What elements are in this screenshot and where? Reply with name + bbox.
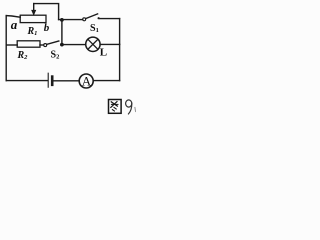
wire: left rail to R2 bbox=[6, 44, 17, 46]
wire: terminal a to left rail bbox=[6, 16, 20, 18]
svg-text:S1: S1 bbox=[90, 23, 99, 34]
wire: S1 to right rail bbox=[100, 18, 120, 20]
caption: character 图 bbox=[109, 100, 122, 114]
svg-text:S2: S2 bbox=[51, 50, 60, 61]
caption: cropped mark at edge bbox=[134, 108, 137, 112]
battery cell short plate bbox=[51, 77, 54, 85]
battery cell long plate bbox=[47, 73, 49, 87]
svg-text:a: a bbox=[11, 17, 18, 32]
wire: right rail to ammeter bbox=[93, 80, 119, 82]
lamp L body bbox=[86, 37, 100, 51]
switch S1 lever bbox=[86, 14, 98, 19]
wire: right rail upper bbox=[119, 19, 121, 45]
wire: node P to node Q bbox=[61, 20, 63, 45]
node P junction dot bbox=[60, 18, 64, 22]
wire: node P to switch S1 bbox=[59, 19, 83, 21]
switch S1 contact dot bbox=[98, 17, 100, 19]
rheostat R1 (slider arrow) bbox=[32, 4, 36, 15]
wire: lamp to right rail bbox=[100, 43, 120, 45]
node Q junction dot bbox=[60, 43, 64, 47]
wire: left rail bbox=[5, 16, 7, 81]
wire: right rail lower bbox=[119, 44, 121, 80]
caption: figure number 9 bbox=[126, 100, 132, 114]
resistor R2 body bbox=[17, 41, 40, 47]
switch S2 lever bbox=[47, 41, 59, 44]
wire: battery to left rail bbox=[6, 80, 47, 82]
wire: node Q to lamp bbox=[62, 44, 86, 46]
wire: top jumper from R1 slider to node P bbox=[34, 4, 59, 20]
svg-text:L: L bbox=[100, 47, 107, 59]
svg-text:R1: R1 bbox=[27, 26, 38, 37]
svg-text:A: A bbox=[82, 74, 92, 89]
wire: ammeter to battery bbox=[53, 80, 79, 82]
switch S2 pivot bbox=[44, 44, 47, 47]
wire: R2 to switch S2 bbox=[40, 44, 44, 46]
svg-text:R2: R2 bbox=[17, 50, 29, 61]
switch S1 pivot bbox=[83, 18, 86, 21]
rheostat R1 body bbox=[20, 15, 46, 22]
ammeter A bbox=[79, 74, 93, 89]
svg-text:b: b bbox=[44, 22, 50, 34]
